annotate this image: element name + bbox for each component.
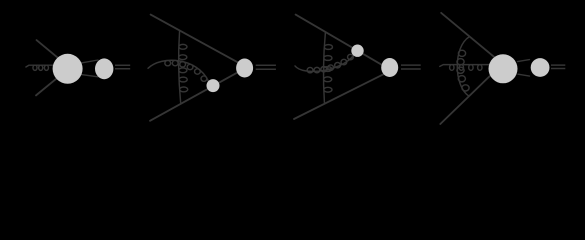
pair line lower D1 — [81, 74, 99, 76]
double line D3 — [401, 65, 421, 69]
antiquark line lower-left D1 — [36, 76, 60, 96]
big blob D1 — [53, 54, 83, 84]
small blob D4 — [531, 58, 550, 77]
quark line top D3 — [296, 15, 383, 66]
pair line upper D1 — [80, 60, 98, 63]
quark line top D2 — [151, 15, 245, 67]
big blob D3 — [381, 58, 398, 77]
pair line lower D4 — [518, 74, 530, 76]
double line D1 — [115, 65, 130, 69]
external gluon arc D3 — [295, 54, 353, 72]
double line D4 — [551, 65, 565, 68]
small blob D1 — [95, 58, 113, 79]
antiquark line lower-left D4 — [440, 72, 494, 124]
quark line upper-left D1 — [37, 40, 61, 60]
double line D2 — [256, 65, 276, 69]
big blob D2 — [236, 59, 253, 78]
big blob D4 — [489, 54, 518, 83]
quark line upper-left D4 — [441, 13, 497, 59]
small blob D2 — [207, 79, 220, 92]
external gluon arc D2 — [148, 60, 208, 81]
pair line upper D4 — [518, 60, 530, 62]
external gluon D1 — [26, 65, 54, 70]
small blob D3 — [351, 45, 363, 57]
gluon coil D3 — [324, 32, 333, 102]
antiquark line bottom D3 — [294, 73, 386, 119]
external gluon D4 — [440, 65, 489, 71]
gluon arc D4 — [457, 37, 470, 97]
antiquark line bottom D2 — [150, 68, 245, 121]
gluon coil D2 — [179, 31, 188, 103]
